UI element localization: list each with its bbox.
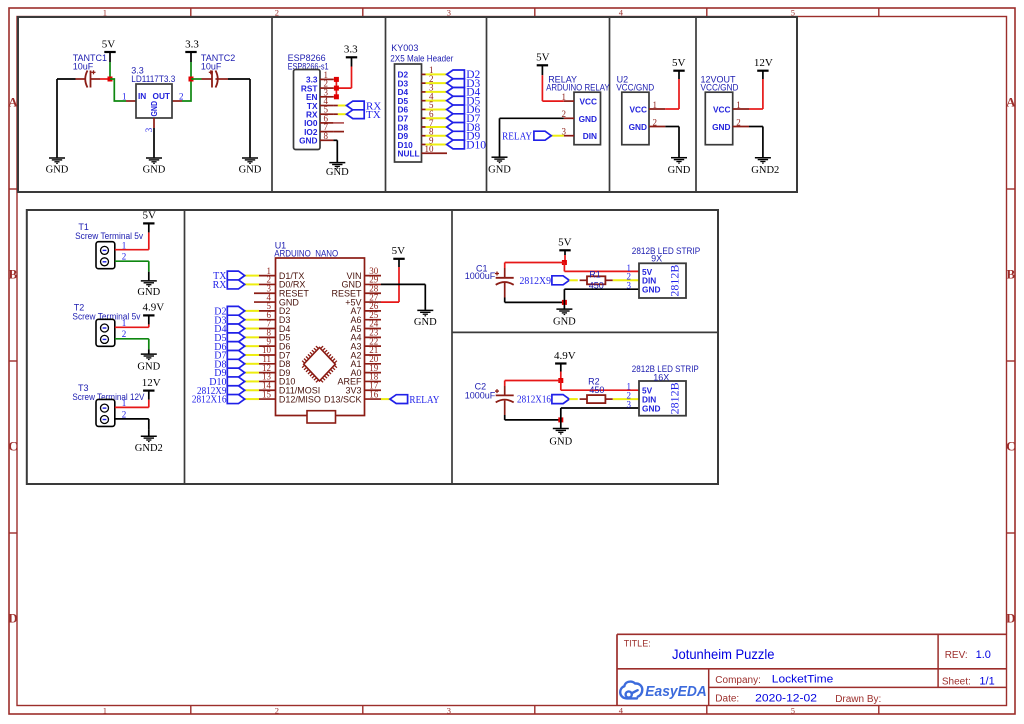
svg-text:KY003: KY003 bbox=[391, 43, 418, 53]
svg-text:3: 3 bbox=[447, 706, 451, 716]
svg-text:GND: GND bbox=[629, 122, 647, 132]
svg-text:GND: GND bbox=[46, 165, 69, 176]
svg-text:2812B: 2812B bbox=[668, 265, 682, 297]
svg-text:1000uF: 1000uF bbox=[465, 391, 496, 401]
svg-text:4.9V: 4.9V bbox=[142, 302, 164, 314]
svg-text:GND: GND bbox=[553, 316, 576, 327]
svg-text:GND: GND bbox=[143, 165, 166, 176]
svg-text:R1: R1 bbox=[589, 270, 601, 280]
svg-text:4: 4 bbox=[619, 706, 624, 716]
svg-text:A: A bbox=[1006, 95, 1016, 110]
svg-text:2020-12-02: 2020-12-02 bbox=[755, 693, 817, 705]
svg-text:1.0: 1.0 bbox=[976, 649, 991, 661]
svg-text:3: 3 bbox=[144, 127, 154, 132]
svg-text:VCC/GND: VCC/GND bbox=[701, 83, 739, 93]
svg-text:OUT: OUT bbox=[152, 91, 170, 101]
svg-text:12V: 12V bbox=[754, 57, 773, 69]
svg-text:GND: GND bbox=[579, 114, 597, 124]
svg-text:10uF: 10uF bbox=[201, 62, 222, 72]
svg-text:B: B bbox=[1006, 267, 1015, 282]
svg-text:5V: 5V bbox=[672, 57, 686, 69]
svg-text:GND: GND bbox=[326, 167, 349, 178]
svg-text:2: 2 bbox=[275, 706, 279, 716]
svg-text:Company:: Company: bbox=[715, 675, 761, 686]
svg-text:2812X16: 2812X16 bbox=[517, 395, 551, 406]
svg-text:IN: IN bbox=[138, 91, 146, 101]
svg-text:GND: GND bbox=[239, 165, 262, 176]
svg-text:GND: GND bbox=[414, 317, 437, 328]
svg-text:5V: 5V bbox=[558, 237, 572, 249]
svg-text:Drawn By:: Drawn By: bbox=[835, 694, 881, 705]
svg-text:Screw Terminal 5v: Screw Terminal 5v bbox=[75, 231, 143, 241]
svg-text:2X5 Male Header: 2X5 Male Header bbox=[390, 53, 453, 63]
svg-text:5: 5 bbox=[791, 706, 795, 716]
svg-text:GND: GND bbox=[137, 287, 160, 298]
svg-text:Jotunheim Puzzle: Jotunheim Puzzle bbox=[672, 646, 775, 662]
svg-text:RX: RX bbox=[213, 280, 228, 291]
svg-text:Sheet:: Sheet: bbox=[942, 676, 971, 687]
svg-text:VCC: VCC bbox=[713, 105, 731, 115]
svg-text:D13/SCK: D13/SCK bbox=[324, 394, 362, 404]
svg-text:D10: D10 bbox=[466, 139, 486, 151]
svg-text:VCC: VCC bbox=[579, 97, 597, 107]
svg-text:2812X16: 2812X16 bbox=[192, 395, 227, 406]
svg-text:GND: GND bbox=[549, 436, 572, 447]
svg-text:3.3: 3.3 bbox=[185, 38, 199, 50]
svg-text:16: 16 bbox=[369, 389, 379, 399]
svg-text:ARDUINO RELAY: ARDUINO RELAY bbox=[546, 83, 610, 93]
svg-text:3.3: 3.3 bbox=[344, 44, 358, 56]
svg-text:GND: GND bbox=[149, 101, 159, 117]
svg-text:RELAY: RELAY bbox=[502, 131, 532, 142]
svg-text:GND2: GND2 bbox=[135, 443, 163, 454]
svg-text:GND: GND bbox=[642, 285, 660, 295]
svg-text:5V: 5V bbox=[392, 245, 406, 257]
svg-text:15: 15 bbox=[262, 389, 272, 399]
svg-text:TX: TX bbox=[366, 109, 381, 121]
svg-text:2812B: 2812B bbox=[668, 382, 682, 414]
svg-text:D: D bbox=[8, 611, 17, 626]
svg-text:GND: GND bbox=[712, 122, 730, 132]
svg-text:GND: GND bbox=[668, 165, 691, 176]
svg-text:GND: GND bbox=[488, 165, 511, 176]
svg-text:GND2: GND2 bbox=[751, 165, 779, 176]
svg-text:1000uF: 1000uF bbox=[465, 271, 496, 281]
svg-text:4.9V: 4.9V bbox=[554, 350, 576, 362]
svg-text:Date:: Date: bbox=[715, 694, 739, 705]
svg-text:10uF: 10uF bbox=[73, 62, 94, 72]
svg-text:5V: 5V bbox=[142, 210, 156, 222]
svg-text:1: 1 bbox=[122, 240, 127, 250]
svg-text:12V: 12V bbox=[142, 377, 161, 389]
svg-text:NULL: NULL bbox=[398, 149, 420, 159]
svg-text:RELAY: RELAY bbox=[409, 395, 439, 406]
svg-text:LD1117T3.3: LD1117T3.3 bbox=[131, 74, 175, 84]
svg-text:1/1: 1/1 bbox=[979, 675, 994, 687]
svg-text:2812B LED STRIP: 2812B LED STRIP bbox=[632, 246, 700, 256]
svg-text:1: 1 bbox=[122, 398, 127, 408]
svg-text:3: 3 bbox=[627, 281, 632, 291]
svg-text:D12/MISO: D12/MISO bbox=[279, 394, 321, 404]
svg-text:A: A bbox=[8, 95, 18, 110]
svg-text:ARDUINO NANO: ARDUINO NANO bbox=[274, 248, 338, 258]
svg-text:GND: GND bbox=[642, 403, 660, 413]
svg-text:D: D bbox=[1006, 611, 1015, 626]
svg-text:2812X9: 2812X9 bbox=[520, 276, 552, 287]
svg-text:9X: 9X bbox=[651, 253, 662, 263]
svg-text:5V: 5V bbox=[102, 38, 116, 50]
svg-text:GND: GND bbox=[299, 136, 317, 146]
svg-text:450: 450 bbox=[589, 385, 604, 395]
svg-text:LocketTime: LocketTime bbox=[772, 674, 834, 686]
svg-text:EasyEDA: EasyEDA bbox=[645, 683, 707, 700]
svg-text:1: 1 bbox=[103, 706, 107, 716]
svg-text:VCC: VCC bbox=[629, 105, 647, 115]
svg-text:3: 3 bbox=[627, 399, 632, 409]
svg-text:1: 1 bbox=[122, 318, 127, 328]
svg-text:2: 2 bbox=[179, 91, 184, 101]
svg-text:GND: GND bbox=[137, 361, 160, 372]
svg-text:B: B bbox=[9, 267, 18, 282]
svg-text:C: C bbox=[1006, 439, 1015, 454]
svg-text:2: 2 bbox=[122, 252, 127, 262]
svg-text:VCC/GND: VCC/GND bbox=[616, 83, 654, 93]
svg-text:5V: 5V bbox=[536, 52, 550, 64]
svg-text:C: C bbox=[8, 439, 17, 454]
svg-text:2: 2 bbox=[122, 409, 127, 419]
svg-text:2: 2 bbox=[122, 329, 127, 339]
svg-text:16X: 16X bbox=[653, 372, 669, 382]
svg-text:DIN: DIN bbox=[583, 131, 597, 141]
svg-text:8: 8 bbox=[324, 131, 329, 141]
svg-text:1: 1 bbox=[122, 91, 127, 101]
svg-text:TITLE:: TITLE: bbox=[624, 639, 651, 649]
svg-text:REV:: REV: bbox=[945, 650, 968, 661]
